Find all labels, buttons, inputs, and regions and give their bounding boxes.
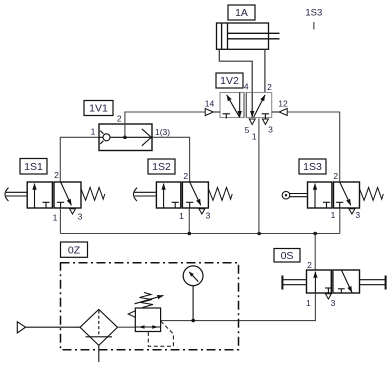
wire 1V1 port 2 to pilot 14: [125, 112, 205, 137]
valve 1S3 exhaust triangle port 3: [349, 209, 355, 214]
svg-text:5: 5: [245, 125, 250, 135]
valve 1S3 label box: [299, 159, 326, 174]
wire 1S3 port 1 to bus: [339, 208, 341, 234]
valve 1V2 label box: [216, 73, 243, 88]
service unit 0Z enclosure (dash-dot): [61, 263, 239, 350]
cylinder 1A body: [217, 23, 280, 49]
svg-text:1(3): 1(3): [155, 127, 170, 137]
svg-text:2: 2: [54, 170, 59, 180]
wire 1V2 port 1 to bus: [258, 119, 260, 234]
svg-text:0Z: 0Z: [68, 245, 81, 257]
svg-text:4: 4: [244, 82, 249, 92]
valve 1S2 spring: [209, 187, 233, 200]
regulator adjustment spring and arrow: [135, 293, 164, 308]
svg-text:1V2: 1V2: [220, 75, 239, 87]
regulator feedback pilot (dashed): [148, 321, 173, 346]
valve 0S left handle: [282, 276, 306, 290]
valve 1V2 internals right cell: [252, 93, 269, 119]
regulator relief flap: [128, 311, 135, 318]
valve 1V1 label box: [84, 101, 113, 116]
valve 0S port labels: [306, 260, 336, 308]
supply bus wire: [60, 233, 339, 235]
valve 1S2 label box: [148, 159, 175, 174]
svg-text:1: 1: [252, 132, 257, 142]
wire 1V1 port 1(3) to 1S2 port 2: [152, 137, 190, 182]
regulator flow path with arrows: [135, 325, 160, 329]
svg-text:3: 3: [331, 298, 336, 308]
valve 1S1 label box: [20, 159, 47, 175]
valve 1S1 exhaust triangle port 3: [70, 209, 76, 214]
valve 1S3 body (3/2 NC, roller + spring): [308, 182, 360, 208]
valve 1S2 body (3/2 NC, plunger + spring): [156, 182, 208, 208]
wire cylinder right port to valve 1V2 port 2: [264, 49, 266, 92]
svg-text:14: 14: [205, 99, 215, 109]
node at 1V1 port 2: [123, 136, 127, 140]
node bus / 1S2: [188, 232, 192, 236]
wire filter to regulator: [118, 326, 136, 328]
valve 1S2 port labels: [179, 171, 211, 221]
valve 1S1 spring: [81, 187, 105, 200]
valve 1V2 body (5/2 way, double pilot): [220, 93, 272, 118]
wire cylinder left port to valve 1V2 port 4: [219, 49, 252, 92]
filter with water separator: [80, 309, 118, 362]
svg-text:1S3: 1S3: [305, 8, 322, 19]
shuttle valve 1V1 body: [99, 124, 152, 151]
svg-text:2: 2: [307, 260, 312, 270]
wire 1S2 port 1 to bus: [188, 208, 190, 234]
wire 1V1 port 1 to 1S1 port 2: [60, 137, 99, 182]
valve 1S1 body (3/2 NC, plunger + spring): [27, 182, 81, 208]
svg-text:1: 1: [306, 298, 311, 308]
valve 1V2 internals left cell: [223, 93, 240, 119]
svg-text:3: 3: [206, 211, 211, 221]
valve 1S3 port labels: [331, 171, 361, 220]
valve 1S3 internals: [315, 182, 351, 208]
node gauge / output line: [191, 319, 195, 323]
valve 1V2 pilot 14: [205, 109, 220, 116]
valve 1S3 spring: [360, 187, 384, 200]
svg-text:2: 2: [267, 82, 272, 92]
svg-text:1S2: 1S2: [152, 161, 171, 173]
svg-text:1: 1: [53, 213, 58, 223]
valve 1S1 plunger actuator: [5, 188, 27, 201]
svg-text:1: 1: [91, 127, 96, 137]
svg-text:2: 2: [183, 171, 188, 181]
svg-text:2: 2: [333, 171, 338, 181]
valve 1S2 internals: [164, 182, 201, 208]
svg-text:12: 12: [278, 99, 288, 109]
valve 0S label box: [274, 249, 300, 263]
node bus / 1V2: [257, 232, 261, 236]
wire bus to 0S port 2: [314, 234, 316, 271]
compressed air supply source: [17, 322, 80, 333]
valve 1S2 plunger actuator: [134, 188, 157, 201]
valve 0S exhaust triangle port 3: [325, 294, 331, 299]
svg-text:3: 3: [268, 125, 273, 135]
svg-text:3: 3: [78, 212, 83, 222]
valve 1S3 roller actuator: [282, 191, 307, 199]
valve 1S1 port labels: [53, 170, 83, 223]
valve 1V2 exhaust triangles ports 5 and 3: [249, 119, 268, 125]
valve 1V2 port labels: [205, 82, 288, 142]
wire 1S1 port 1 to bus: [59, 208, 61, 234]
valve 0S right handle: [360, 276, 386, 290]
pressure gauge: [183, 266, 203, 321]
svg-text:3: 3: [355, 210, 360, 220]
valve 1S2 exhaust triangle port 3: [199, 209, 205, 214]
1V1 port labels: [91, 114, 171, 138]
svg-text:1S1: 1S1: [24, 161, 43, 173]
valve 1S1 internals: [35, 182, 72, 208]
svg-text:2: 2: [117, 114, 122, 124]
cylinder 1A label box: [228, 5, 255, 20]
svg-text:1: 1: [179, 211, 184, 221]
svg-text:0S: 0S: [281, 250, 294, 262]
valve 1V2 pilot 12: [272, 108, 288, 115]
node bus / 0S: [313, 232, 317, 236]
svg-text:1: 1: [331, 210, 336, 220]
svg-text:1A: 1A: [235, 7, 248, 19]
pressure regulator: [135, 308, 160, 332]
svg-text:1V1: 1V1: [89, 103, 108, 115]
valve 0S body (3/2 hand slide): [307, 270, 360, 293]
wire 0S port 1 to service unit output: [161, 293, 316, 321]
wire pilot 12 to 1S3 port 2: [287, 112, 340, 182]
valve 0S internals: [315, 270, 352, 293]
shuttle valve 1V1 internals: [99, 129, 153, 146]
svg-text:1S3: 1S3: [303, 161, 322, 173]
sensor mark 1S3 at cylinder end: [305, 8, 322, 30]
service unit 0Z label box: [61, 242, 88, 257]
